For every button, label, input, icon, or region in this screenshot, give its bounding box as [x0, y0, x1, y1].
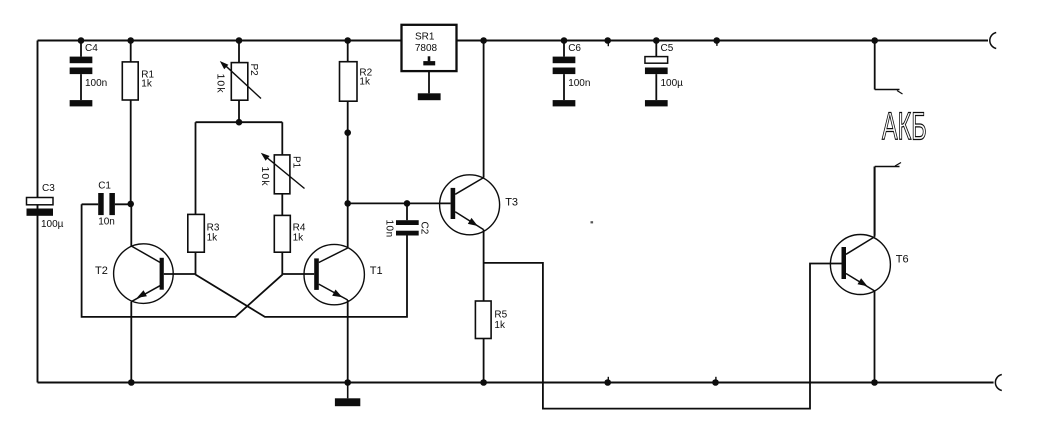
- svg-text:C3: C3: [42, 183, 55, 194]
- svg-text:10n: 10n: [98, 216, 115, 227]
- svg-text:100µ: 100µ: [661, 78, 684, 89]
- svg-text:C5: C5: [661, 43, 674, 54]
- svg-text:R5: R5: [494, 310, 507, 321]
- svg-text:P2: P2: [248, 64, 259, 77]
- svg-text:C1: C1: [98, 180, 111, 191]
- svg-text:T6: T6: [896, 253, 909, 265]
- svg-text:100n: 100n: [568, 78, 590, 89]
- svg-text:C2: C2: [419, 222, 430, 235]
- svg-text:1k: 1k: [293, 232, 305, 243]
- svg-text:1k: 1k: [494, 320, 506, 331]
- svg-text:T1: T1: [370, 265, 383, 277]
- svg-text:100n: 100n: [85, 78, 107, 89]
- svg-text:SR1: SR1: [415, 31, 435, 42]
- svg-text:1k: 1k: [141, 79, 153, 90]
- svg-text:P1: P1: [291, 156, 302, 169]
- svg-text:1k: 1k: [359, 77, 371, 88]
- svg-text:1k: 1k: [207, 232, 219, 243]
- svg-text:10n: 10n: [383, 220, 394, 238]
- svg-text:10k: 10k: [259, 167, 271, 187]
- svg-text:C4: C4: [85, 43, 98, 54]
- svg-text:T3: T3: [505, 196, 518, 208]
- svg-text:10k: 10k: [214, 74, 226, 94]
- svg-text:АКБ: АКБ: [882, 106, 927, 149]
- svg-text:100µ: 100µ: [41, 219, 64, 230]
- svg-text:C6: C6: [568, 43, 581, 54]
- svg-text:7808: 7808: [415, 43, 438, 54]
- svg-text:T2: T2: [95, 265, 108, 277]
